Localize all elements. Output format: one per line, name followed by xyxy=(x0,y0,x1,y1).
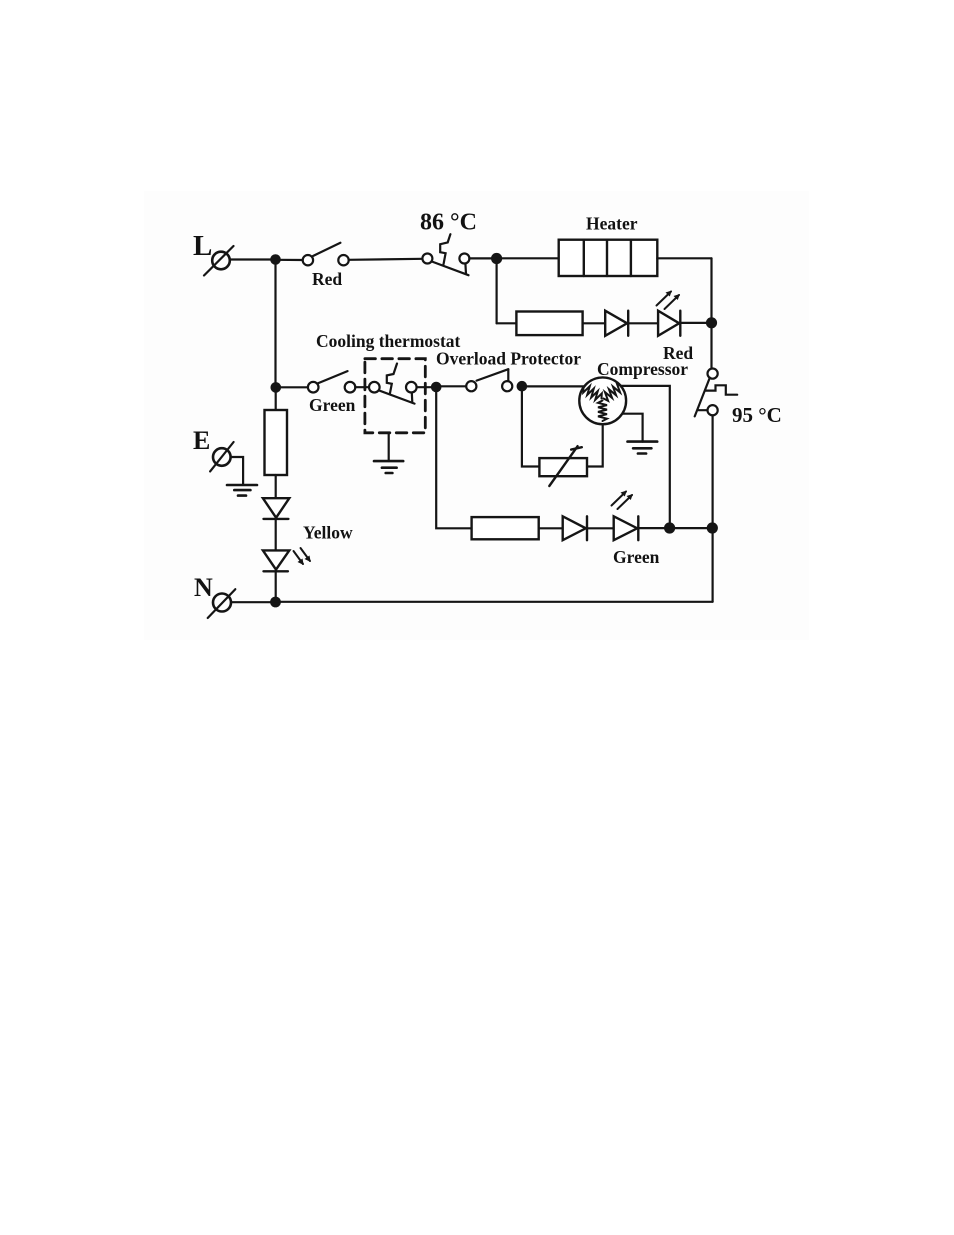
wire node B to heater xyxy=(497,257,559,259)
LED yellow indicator xyxy=(263,550,289,571)
resistor R2 xyxy=(472,517,539,539)
wire bottom rail xyxy=(276,601,713,603)
node G junction xyxy=(517,381,528,392)
svg-text:E: E xyxy=(193,426,210,455)
wire right rail lower xyxy=(711,415,713,601)
resistor R1 xyxy=(516,312,582,336)
svg-text:86 °C: 86 °C xyxy=(420,210,477,236)
wire node F to overload protector xyxy=(436,385,466,387)
wire compressor lower right to ground xyxy=(622,414,643,442)
diode D1 xyxy=(605,311,628,336)
terminal L xyxy=(204,246,234,276)
node B junction xyxy=(491,253,502,264)
wire to resistor R1 xyxy=(497,322,517,324)
wire compressor bottom xyxy=(587,424,603,466)
wire thermostat to node F xyxy=(417,386,431,388)
wire LED yellow to node I xyxy=(275,571,277,602)
compressor ground xyxy=(628,442,658,454)
wire node G to compressor xyxy=(522,385,588,387)
svg-text:Red: Red xyxy=(312,269,342,289)
svg-text:95 °C: 95 °C xyxy=(732,403,782,427)
svg-text:L: L xyxy=(193,230,212,262)
thermal switch 95C xyxy=(695,369,738,417)
thermostat ground stem xyxy=(388,433,390,461)
wire node E1 to resistor R3 xyxy=(275,387,277,410)
LED green indicator xyxy=(614,516,639,540)
wire E to ground xyxy=(231,457,244,485)
thermal switch 86C xyxy=(422,234,469,275)
terminal E xyxy=(210,442,234,471)
wire node F down to indicator branch xyxy=(436,387,471,528)
switch S1 Red xyxy=(303,243,349,266)
wire LED red to node C xyxy=(680,322,711,324)
E ground xyxy=(227,485,257,496)
svg-text:Compressor: Compressor xyxy=(597,359,688,379)
overload protector switch xyxy=(466,369,512,391)
svg-text:Yellow: Yellow xyxy=(303,523,353,543)
svg-text:Green: Green xyxy=(309,395,356,415)
wire R2 to diode D2 xyxy=(539,527,563,529)
svg-text:Overload Protector: Overload Protector xyxy=(436,349,581,369)
svg-text:Green: Green xyxy=(613,547,660,567)
cooling thermostat dashed box xyxy=(365,359,425,433)
starter PTC box xyxy=(539,446,587,486)
switch S2 Green xyxy=(308,371,355,392)
wire D3 to LED yellow xyxy=(275,519,277,551)
node F junction xyxy=(431,382,442,393)
wire D2 to LED green xyxy=(587,527,614,529)
wire node B down xyxy=(496,259,498,324)
node D junction xyxy=(707,522,718,533)
resistor R3 xyxy=(265,410,288,475)
wire S2 to thermostat xyxy=(355,386,369,388)
compressor M1 xyxy=(579,377,626,424)
wire N to node I xyxy=(231,601,276,603)
wire compressor right top xyxy=(620,386,670,528)
wire D1 to LED red xyxy=(628,322,658,324)
LED yellow arrows xyxy=(294,548,311,565)
wire LED green to node D xyxy=(638,527,712,529)
scan background xyxy=(144,191,809,640)
wire node G down to starter xyxy=(522,386,540,466)
thermostat ground xyxy=(374,461,403,473)
wire right rail top xyxy=(710,258,712,368)
wire L to node A xyxy=(230,258,276,260)
wire thermal switch to node B xyxy=(469,257,496,259)
wire heater to right rail xyxy=(657,257,711,259)
wire R3 to diode D3 xyxy=(275,475,277,498)
wire left rail upper xyxy=(274,260,276,388)
LED red indicator xyxy=(658,311,680,336)
node E1 junction xyxy=(271,382,282,393)
svg-text:N: N xyxy=(194,573,213,602)
LED red arrows xyxy=(657,291,680,310)
terminal N xyxy=(208,589,236,618)
wire R1 to diode D1 xyxy=(583,322,606,324)
wire node A to switch Red xyxy=(276,259,303,261)
heater element xyxy=(559,240,658,276)
thermostat switch xyxy=(369,364,417,404)
node C junction xyxy=(706,317,717,328)
LED green arrows xyxy=(612,491,633,510)
node I junction xyxy=(270,597,281,608)
diode D2 xyxy=(563,516,587,540)
wire switch Red to thermal switch xyxy=(349,259,423,260)
diode D3 xyxy=(263,498,289,519)
node A junction xyxy=(270,254,281,265)
node H junction xyxy=(664,522,675,533)
svg-text:Heater: Heater xyxy=(586,214,638,234)
wire node E1 to switch Green xyxy=(276,386,308,388)
